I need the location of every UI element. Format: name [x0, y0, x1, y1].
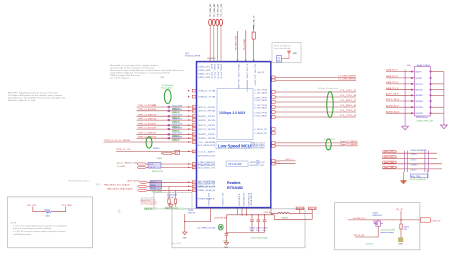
wire VREG down: [184, 214, 186, 232]
svg-text:4 IO4 5: 4 IO4 5: [411, 170, 417, 172]
connector pin row 3 DATA_TX1_P: [386, 81, 444, 86]
svg-text:FB5000: FB5000: [282, 218, 288, 220]
wire SCL to U5000: [147, 185, 196, 188]
svg-text:Match within 5 mil.: Match within 5 mil.: [8, 99, 37, 102]
svg-text:RTS5452: RTS5452: [227, 186, 243, 190]
ESD array U5001 body: [405, 151, 429, 173]
inductor L5001: [278, 213, 290, 214]
svg-text:AB_C03: AB_C03: [258, 71, 264, 74]
svg-text:36: 36: [193, 107, 195, 109]
note box around debug pull resistors: [154, 192, 192, 209]
svg-text:C5024 220nF: C5024 220nF: [172, 119, 182, 121]
svg-text:SSTX_PF1N: SSTX_PF1N: [198, 111, 216, 113]
svg-text:TP_PD_DM: TP_PD_DM: [221, 3, 223, 16]
svg-text:TYPE_C1_CC1: TYPE_C1_CC1: [116, 149, 131, 151]
svg-text:SSTX_PF2N: SSTX_PF2N: [198, 129, 216, 131]
svg-text:(From EC I2C bus): (From EC I2C bus): [69, 180, 90, 182]
svg-text:C5021 220nF: C5021 220nF: [172, 105, 182, 107]
note text bottom left (gray): [11, 222, 67, 235]
pin box SBU2 right: [272, 145, 276, 148]
wire TYPE_C1_SSRX1N: [137, 118, 196, 123]
bottom left note box: [8, 197, 93, 248]
wires resistors to rail: [169, 203, 176, 206]
ESD array value label: [410, 174, 429, 181]
svg-text:RESET: RESET: [198, 199, 215, 201]
port box PortB_5V: [420, 218, 441, 223]
svg-text:PortB_5V: PortB_5V: [432, 220, 442, 223]
svg-text:DM_TP1: DM_TP1: [213, 64, 215, 79]
diode D5001 in note box: [288, 51, 298, 55]
wire inductor to ports: [290, 213, 313, 215]
note gray 2 rows above badge: [140, 197, 154, 202]
svg-text:TypeC_SS1_2: TypeC_SS1_2: [384, 157, 396, 159]
wire TYPE_C1_SSTX2N: [137, 127, 196, 132]
wire VBUS_DET vertical: [236, 31, 238, 62]
internal block U3.3 regulator: [226, 161, 248, 167]
port flag SBU1: [137, 166, 146, 168]
svg-text:LDO1833_EN: LDO1833_EN: [214, 218, 227, 220]
svg-text:A7 DN1: A7 DN1: [416, 77, 422, 80]
svg-text:SMB_QSMGPION: SMB_QSMGPION: [198, 184, 216, 186]
svg-text:A8 SBU1: A8 SBU1: [416, 94, 423, 97]
wire C1_SSRXP (right top pair): [272, 76, 357, 79]
svg-text:3 GND 6: 3 GND 6: [411, 165, 418, 167]
svg-text:I2C1_SDA: I2C1_SDA: [62, 204, 72, 207]
footprint badge PD bead: [144, 207, 157, 210]
svg-text:NC (on) anten: NC (on) anten: [161, 87, 172, 90]
wire PD_5V down: [400, 211, 402, 224]
note gray small: [118, 210, 121, 214]
svg-text:CC_RE_5V_DET: CC_RE_5V_DET: [254, 64, 256, 86]
svg-text:31: 31: [245, 60, 247, 62]
wire TypeC_SS1_TX1: [382, 151, 437, 154]
note annotation (far left): [8, 92, 67, 103]
svg-text:VDD2: VDD2: [244, 193, 246, 206]
svg-text:18: 18: [193, 182, 195, 184]
internal block Low Speed MCU: [216, 142, 251, 149]
svg-text:SMB_SDA_IN: SMB_SDA_IN: [198, 189, 216, 192]
svg-text:R5046 0: R5046 0: [153, 148, 160, 150]
svg-text:USB2_DM2: USB2_DM2: [198, 77, 210, 79]
svg-text:1: 1: [209, 60, 210, 62]
svg-text:C_SBU2_PF: C_SBU2_PF: [254, 133, 267, 135]
wire PB_5V_EN to FET gate: [355, 227, 378, 238]
port flag SBU2: [137, 163, 146, 165]
svg-text:DM_TP2: DM_TP2: [219, 64, 221, 79]
svg-text:PROPTECOBLW: PROPTECOBLW: [250, 147, 265, 149]
svg-text:APPGGPPIOCTRG: APPGGPPIOCTRG: [198, 155, 216, 158]
unconnected pin box C_SBU2_PF: [272, 132, 276, 135]
svg-text:SSRX_PF1P: SSRX_PF1P: [198, 116, 217, 118]
port flag SDL: [138, 185, 148, 187]
wire U5000 bottom pin stubs to cap rail: [227, 208, 275, 215]
svg-text:C_RX1_PFLM: C_RX1_PFLM: [254, 97, 268, 99]
unconnected pin box C_SBU1_PF: [272, 128, 276, 131]
svg-text:PD_VBUS_DET: PD_VBUS_DET: [236, 35, 238, 50]
resistor R5073: [400, 224, 409, 238]
U5000 inner MCU row pin names: [198, 144, 265, 189]
wire SCL pullup tap: [168, 186, 170, 199]
junction dot EN: [184, 221, 185, 222]
svg-text:SSTX_PF1P: SSTX_PF1P: [198, 107, 217, 109]
note box with VCONN cap circuit (top right of IC): [272, 43, 301, 63]
wire C_TX2_P: [272, 110, 357, 113]
wire TypeC_SS1_TX2: [382, 156, 437, 159]
wire green ESD: [427, 170, 429, 179]
footprint badge small green 2: [178, 208, 185, 210]
capacitor C5103: [249, 214, 255, 232]
wire TYPE_C1_SSTX1N: [137, 109, 196, 114]
svg-text:VBUS_DET_IN_USB: VBUS_DET_IN_USB: [237, 64, 239, 90]
svg-text:VREG_EN: VREG_EN: [209, 192, 211, 206]
svg-text:B2 RXP1: B2 RXP1: [416, 107, 423, 109]
wire TP5004 to U5000 pin: [220, 25, 222, 61]
svg-text:16: 16: [193, 190, 195, 192]
svg-text:Aux_TL_SBU2 /C1_SB2: Aux_TL_SBU2 /C1_SB2: [117, 161, 138, 164]
svg-text:USB2_DP2: USB2_DP2: [198, 73, 210, 75]
svg-text:C_PD_USB_PWRDET: C_PD_USB_PWRDET: [246, 64, 248, 92]
svg-text:DMG1012T: DMG1012T: [373, 215, 384, 217]
wire SBU1 to U5000: [146, 166, 196, 169]
svg-text:0402: 0402: [46, 215, 50, 217]
wire SPK stub 1: [272, 159, 296, 162]
svg-text:C_TX2_PALM: C_TX2_PALM: [254, 107, 268, 110]
test point TP5003: [216, 3, 220, 26]
capacitor C5010 in note box: [277, 56, 282, 63]
U5000 bottom edge rotated pin names: [209, 190, 273, 206]
svg-text:VDD1: VDD1: [239, 193, 241, 206]
wire FET to port: [374, 219, 420, 221]
svg-text:CC1_DET: CC1_DET: [198, 151, 215, 153]
svg-text:C_SBU1_PF: C_SBU1_PF: [254, 129, 267, 131]
svg-text:2 IO2 7: 2 IO2 7: [411, 159, 417, 161]
svg-text:USB2_DM1: USB2_DM1: [198, 70, 210, 72]
svg-text:A2 TXP1: A2 TXP1: [416, 83, 423, 86]
highlight ellipse (green) over right 10G pairs: [327, 92, 333, 118]
wire TYPE_C1_SSRX1P: [137, 114, 196, 119]
svg-text:27: 27: [193, 138, 195, 140]
highlight circle (green) small: [218, 224, 223, 230]
wire SDA to U5000: [147, 189, 196, 192]
port flag ALT1_MODE: [140, 181, 148, 183]
svg-text:24: 24: [193, 151, 195, 153]
note debug pins (red): [141, 199, 158, 205]
wire I2C bracket: [33, 207, 66, 212]
svg-text:35: 35: [193, 111, 195, 113]
port stub PDB_3V: [311, 210, 313, 220]
svg-text:TP_PD_DP: TP_PD_DP: [217, 3, 219, 17]
svg-text:ALT1_MODE: ALT1_MODE: [128, 180, 141, 183]
capacitor C5105: [262, 214, 268, 232]
svg-text:TypeC_SBU_2: TypeC_SBU_2: [384, 167, 397, 169]
wire SBU2 to U5000: [146, 163, 196, 166]
label TP antenna note (green): [161, 85, 174, 90]
wire TypeC1_SBU1 (right): [272, 141, 358, 144]
svg-text:B3 RXN1: B3 RXN1: [416, 113, 424, 115]
svg-text:TypeC_SS1_1: TypeC_SS1_1: [384, 151, 396, 153]
wire TypeC1_SBU2 (right): [275, 144, 358, 146]
wire TYPE_C1_SSTX2P: [137, 123, 196, 128]
pin numbers on U5000 top edge: [209, 60, 255, 62]
svg-text:GND2_PTA: GND2_PTA: [198, 96, 217, 99]
pin box GPIO2: [272, 162, 276, 165]
label AUX SBU nets: [117, 161, 138, 167]
resistor R5047 vertical: [174, 199, 176, 203]
resistor R5005 vertical: [252, 15, 256, 62]
svg-text:C5025 220nF: C5025 220nF: [172, 124, 182, 126]
MOSFET Q5071 symbol: [374, 220, 383, 226]
connector pin row 2 DATA_N1_N: [386, 75, 422, 80]
svg-text:USB2_DP1: USB2_DP1: [198, 66, 210, 68]
wire TP5003 to U5000 pin: [216, 25, 218, 61]
svg-text:4.7K_X2: 4.7K_X2: [149, 167, 156, 169]
unconnected pin box 37: [188, 95, 196, 98]
svg-text:C5027 220nF: C5027 220nF: [172, 133, 182, 135]
svg-text:Low Speed MCU: Low Speed MCU: [218, 143, 251, 148]
bottom right note box: [335, 203, 420, 250]
svg-text:28: 28: [193, 134, 195, 136]
svg-text:10Gbps 3.0 MUX: 10Gbps 3.0 MUX: [219, 111, 246, 115]
connector pin row 5 AUXTL_SB_P: [386, 93, 444, 98]
svg-text:PD_VCONN: PD_VCONN: [244, 38, 246, 50]
svg-text:21: 21: [193, 167, 195, 169]
test point TP5001: [209, 3, 213, 25]
svg-text:VDD3: VDD3: [248, 193, 250, 206]
svg-text:C_TX1_PFLM: C_TX1_PFLM: [254, 90, 268, 92]
svg-text:1. If this is an output s: 1. If this is an output simply remove it…: [13, 224, 67, 227]
internal block 10Gbps 3.0 MUX: [217, 89, 253, 140]
svg-text:Realtek: Realtek: [227, 181, 241, 185]
connector pin row 7 AUXRX_B2_P: [386, 104, 444, 109]
svg-text:Note: v1 (R): Note: v1 (R): [172, 242, 182, 245]
svg-text:SSTX_PF2P: SSTX_PF2P: [198, 125, 217, 127]
svg-text:VREG_18: VREG_18: [223, 193, 225, 206]
svg-text:+3V3_A: +3V3_A: [263, 211, 271, 214]
svg-text:PD_5V: PD_5V: [396, 209, 403, 211]
connector GND bus right: [443, 72, 445, 126]
svg-text:A_DATA02_(CLKMUX/PD): A_DATA02_(CLKMUX/PD): [198, 164, 215, 167]
connector pin row 6 AUXTL_SB_N: [386, 98, 423, 103]
ground symbol cap rail: [224, 242, 229, 249]
wire C_TX2_N: [272, 115, 357, 118]
svg-text:2. If SCL SD is an input: 2. If SCL SD is an input simply a voltag…: [13, 230, 65, 233]
svg-text:powered adapter: powered adapter: [381, 231, 395, 234]
highlight ellipse (green) over SBU pair: [326, 139, 331, 150]
connector J5000 body: [415, 67, 431, 117]
connector pin row 4 DATA_TX1_N: [386, 87, 444, 92]
resistor pack R5020: [148, 162, 163, 173]
svg-text:TP_USB_DM: TP_USB_DM: [214, 4, 216, 17]
svg-text:32: 32: [237, 60, 239, 62]
svg-text:2K_X2: 2K_X2: [151, 187, 156, 189]
svg-text:R0402: R0402: [157, 158, 162, 160]
svg-text:34: 34: [193, 116, 195, 118]
svg-text:SMB_DBG01_SDL_SCALIN: SMB_DBG01_SDL_SCALIN: [104, 184, 130, 187]
U5000 inner top-left pin rows: [198, 66, 210, 79]
svg-text:(NC): (NC): [96, 184, 100, 186]
svg-text:AUX_PWRSTG(TX): AUX_PWRSTG(TX): [198, 144, 215, 147]
svg-text:VCONN_IN_L: VCONN_IN_L: [353, 218, 367, 220]
svg-text:and SDA input pullup.: and SDA input pullup.: [13, 233, 32, 236]
svg-text:SSRX_PF2N: SSRX_PF2N: [198, 138, 216, 140]
capacitor C5102: [223, 215, 229, 243]
svg-text:U1_VREG_OUT18: U1_VREG_OUT18: [198, 227, 216, 229]
resistor R5046 on CC branch: [153, 148, 180, 160]
test point TP5004: [220, 3, 224, 25]
svg-text:when cable detected: when cable detected: [274, 47, 290, 50]
svg-text:TP_USB_DP: TP_USB_DP: [210, 3, 212, 17]
chassis ground arrow right: [441, 125, 448, 129]
test point TP5002: [212, 4, 216, 26]
svg-text:C5028 220nF: C5028 220nF: [172, 137, 182, 139]
svg-text:use, check grounds.: use, check grounds.: [141, 204, 158, 206]
svg-text:ESD_TVS4: ESD_TVS4: [411, 176, 420, 178]
svg-text:SMC_OUT (MTP2GPIO): SMC_OUT (MTP2GPIO): [198, 181, 215, 183]
svg-text:RTSP5000mm: RTSP5000mm: [416, 117, 428, 119]
ground symbol VREG: [182, 232, 187, 239]
resistor R5046 vertical: [168, 199, 170, 203]
wire C_RX1_P: [272, 100, 357, 103]
capacitor C5104: [256, 214, 262, 232]
svg-text:C5022 220nF: C5022 220nF: [172, 109, 182, 111]
svg-text:TYPE_C1_CC_OC_SENSE: TYPE_C1_CC_OC_SENSE: [104, 140, 130, 142]
connector pin row 8 AUXRX_B2_N: [386, 110, 423, 115]
wire SPK stub 2: [272, 162, 296, 164]
svg-text:DP_TP2: DP_TP2: [216, 64, 218, 79]
svg-text:PDB_3V: PDB_3V: [309, 208, 316, 210]
pin box SSRXN: [272, 79, 276, 82]
svg-text:OC_SENSE: OC_SENSE: [198, 142, 217, 144]
bottom decoupling note box (gray): [172, 209, 305, 248]
svg-text:A_DATA01_(DATAMUX/PD): A_DATA01_(DATAMUX/PD): [198, 161, 215, 164]
svg-text:SSRX_PF2P: SSRX_PF2P: [198, 134, 217, 136]
svg-text:GND: GND: [293, 53, 298, 55]
wire VCONN vertical: [244, 30, 246, 62]
wire C_RX1_N: [272, 105, 357, 108]
note annotation (above left wires): [110, 64, 185, 79]
svg-text:Diff pairs 10G keep short: Diff pairs 10G keep short: [318, 87, 338, 90]
svg-text:SSRX_PF1N: SSRX_PF1N: [198, 120, 216, 122]
svg-text:R5020: R5020: [149, 164, 154, 166]
svg-text:C_TX2_PFLM: C_TX2_PFLM: [254, 105, 268, 107]
wire C1_SSRXN: [275, 79, 356, 81]
svg-text:VIN_3V: VIN_3V: [188, 213, 196, 215]
note close this (green+blue): [381, 230, 396, 235]
svg-text:C1_SBU1: C1_SBU1: [117, 166, 125, 168]
port flag SDA: [138, 189, 148, 191]
port box PDA_3V: [296, 207, 304, 210]
svg-text:U3.3 GmX#: U3.3 GmX#: [228, 162, 242, 166]
wire C_TX1_P: [272, 90, 357, 93]
svg-text:C5026 220nF: C5026 220nF: [172, 128, 182, 130]
svg-text:C5023 220nF: C5023 220nF: [172, 115, 182, 117]
resistor R5000 NC: [44, 210, 52, 218]
svg-text:3V3: 3V3: [161, 77, 164, 79]
wire VCONN_IN to FET: [348, 219, 374, 221]
svg-text:L0402_PD: L0402_PD: [144, 208, 153, 210]
svg-text:C0201_4: C0201_4: [172, 140, 179, 142]
wire TP5001 to U5000 pin: [209, 25, 211, 61]
label R5046 R5047 pullups: [167, 195, 177, 199]
wire TypeC_SBU_1: [382, 161, 442, 164]
cap ground rail: [227, 231, 265, 233]
connector right pin squares: [430, 71, 432, 73]
U5000 inner pin names left column: [198, 90, 217, 201]
wire TYPE_C1_SSRX2P: [137, 133, 196, 138]
wire TYPE_C1_CC_OC_SENSE: [104, 140, 196, 144]
svg-text:TypeC_SBU_1: TypeC_SBU_1: [384, 162, 397, 164]
svg-text:NOTE:: NOTE:: [11, 222, 17, 224]
svg-text:GNDDPPUSH2_(M: GNDDPPUSH2_(M: [250, 162, 266, 164]
svg-text:SOT23_6_ESD (alt): SOT23_6_ESD (alt): [410, 178, 426, 181]
svg-text:GND: GND: [407, 65, 412, 67]
wire TypeC_SBU_2: [382, 166, 442, 169]
unconnected pin box 38: [188, 89, 196, 92]
svg-text:V33: V33: [271, 193, 273, 206]
svg-text:PB_5V_EN: PB_5V_EN: [354, 235, 365, 237]
U5000 top edge rotated pin names: [210, 64, 256, 92]
svg-text:29: 29: [193, 129, 195, 131]
connector pin row 1 DATA_N1_P: [386, 69, 422, 74]
wire TYPE_C1_SSTX1P: [137, 105, 196, 110]
footprint badge R0402_X2: [165, 207, 179, 210]
svg-text:A3 TXN1: A3 TXN1: [416, 89, 423, 92]
wire EN net: [185, 208, 211, 221]
svg-text:and is not shared anything: and is not shared anything outside insta…: [13, 227, 51, 230]
svg-text:SMB_DBG01_SDA_SCALIN: SMB_DBG01_SDA_SCALIN: [107, 188, 133, 191]
IC name label Realtek RTS5452: [227, 181, 243, 190]
port box PDB_3V: [308, 207, 316, 210]
highlight ellipse (green) over CC wire: [146, 137, 152, 148]
level shifter block U5000A: [150, 181, 163, 194]
net tie NT5001 (khaki): [398, 238, 403, 246]
svg-text:GND: GND: [224, 247, 229, 249]
pin label LDO block on U5000 top: [185, 53, 216, 60]
svg-text:PD_C_RE_5V: PD_C_RE_5V: [254, 15, 256, 28]
chassis ground arrow left: [402, 126, 409, 130]
junction dot PD_5V: [400, 219, 401, 220]
svg-text:B8 SBU2: B8 SBU2: [416, 101, 423, 103]
wire FB rail: [274, 215, 312, 220]
svg-text:SOT723: SOT723: [366, 244, 373, 246]
wire TYPE_C1_SSRX2N: [137, 136, 196, 141]
svg-text:RTS5453_3PWR: RTS5453_3PWR: [185, 55, 201, 57]
svg-text:GND1_PTA: GND1_PTA: [198, 90, 217, 93]
svg-text:C_RX2_PFLM: C_RX2_PFLM: [254, 112, 268, 114]
ground symbol (red) near badge: [169, 203, 173, 208]
svg-text:or better 6.3V: or better 6.3V: [140, 199, 151, 202]
wire +3V3 from U5000: [263, 208, 277, 214]
svg-text:1nF: 1nF: [175, 153, 178, 155]
svg-text:GND: GND: [182, 237, 187, 239]
svg-text:C_TX1_PALM: C_TX1_PALM: [254, 92, 268, 95]
highlight ellipse (green) over TX pair: [164, 90, 171, 104]
svg-text:17: 17: [193, 186, 195, 188]
svg-text:R0402_4P2R: R0402_4P2R: [152, 171, 163, 173]
label PD5000 VIN_3V (blue): [188, 210, 196, 215]
wire in note box: [282, 54, 290, 59]
svg-text:22: 22: [193, 164, 195, 166]
svg-text:CONN_TYPEC_24P: CONN_TYPEC_24P: [417, 121, 434, 123]
svg-text:on inner layers.: on inner layers.: [110, 77, 131, 79]
connector GND bus left: [404, 70, 406, 127]
U5000 inner pin names right column: [251, 90, 268, 166]
svg-text:SMB_DELLGPIOS: SMB_DELLGPIOS: [198, 186, 216, 188]
wire TP5002 to U5000 pin: [213, 25, 215, 61]
svg-text:GND: GND: [399, 243, 404, 245]
main IC U5000 Realtek RTS5452 body: [197, 62, 271, 208]
wire C_TX1_N: [272, 95, 357, 98]
